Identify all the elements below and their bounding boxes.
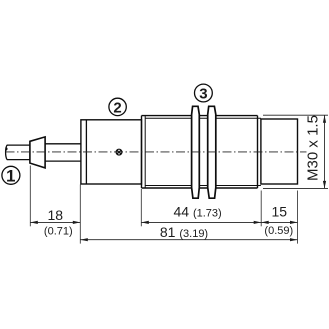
svg-text:(0.71): (0.71) [44,225,73,237]
svg-text:1: 1 [6,167,15,186]
svg-text:(0.59): (0.59) [264,225,293,237]
svg-text:2: 2 [113,99,121,116]
dimension 81 [80,238,297,241]
dimension M30 x 1.5 [263,115,328,188]
centerline [6,151,307,153]
extension line thread-end [260,191,262,227]
strain relief cone [30,137,45,168]
dimension 44 [141,221,261,224]
label 3 [195,84,213,102]
hex nut right (part 3) [208,106,216,198]
extension line body-left [79,185,81,244]
threaded section [142,116,261,188]
svg-text:M30 x 1.5: M30 x 1.5 [305,115,322,181]
cable gland cylinder [45,144,81,161]
dimension 15 [261,221,297,224]
cable (part 1) [6,145,30,160]
extension line tip [297,191,299,244]
hex nut left (part 3) [192,106,200,198]
svg-text:15: 15 [272,204,288,220]
label 2 [109,98,126,116]
svg-text:18: 18 [48,207,64,223]
svg-text:3: 3 [199,86,207,103]
label 1 [2,166,20,185]
extension line cone-left [29,166,31,227]
body barrel (part 2) [81,120,142,184]
extension line thread-start [140,189,142,226]
body seam line [85,120,87,184]
LED indicator [116,149,122,155]
dimension 18 [30,221,80,224]
end cap / sensing face [261,119,298,184]
